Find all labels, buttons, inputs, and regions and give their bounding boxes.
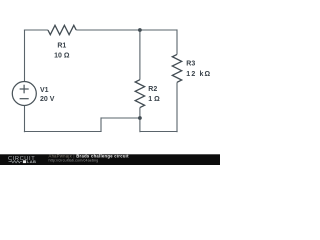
svg-text:http://circuitlab.com/c4ae6ng: http://circuitlab.com/c4ae6ng (49, 158, 99, 162)
svg-text:R3: R3 (186, 61, 195, 68)
watermark banner (0, 154, 220, 165)
svg-text:LAB: LAB (27, 159, 36, 164)
wire: top rail left lead to R1 (24, 29, 48, 31)
wire: R2 bottom pin to lower junction (139, 108, 141, 118)
svg-text:20 V: 20 V (40, 96, 55, 103)
wire: R3 bottom to bottom-right corner (176, 82, 178, 132)
voltage source V1 circle (12, 82, 36, 106)
wire: bottom rail right segment (R2 foot to R3 foot) (140, 131, 178, 133)
wire: mid horizontal at y=118 (101, 117, 140, 119)
svg-text:12 kΩ: 12 kΩ (186, 71, 211, 78)
V1 plus sign (20, 85, 29, 94)
V1 minus sign (20, 98, 29, 100)
svg-text:1 Ω: 1 Ω (148, 96, 160, 103)
junction node top (R2/top rail) (138, 28, 142, 32)
wire: left vertical from top rail to V1 top (24, 30, 26, 82)
resistor R2 zigzag (135, 80, 144, 108)
CircuitLab logo white chip (23, 160, 26, 163)
wire: top rail from R1 to right corner (76, 29, 177, 31)
svg-text:V1: V1 (40, 87, 49, 94)
wire: V1 bottom pin (24, 105, 26, 132)
CircuitLab logo resistor squiggle (9, 161, 23, 163)
resistor R3 zigzag (172, 54, 181, 82)
wire: R2 top pin from junction (139, 30, 141, 80)
wire: right vertical down to R3 top (176, 29, 178, 54)
resistor R1 zigzag (48, 25, 76, 34)
wire: jog vertical at x=101 (100, 117, 102, 131)
svg-text:R1: R1 (57, 43, 66, 50)
svg-text:R2: R2 (148, 86, 157, 93)
wire: lower junction down to bottom rail (139, 118, 141, 132)
svg-text:10 Ω: 10 Ω (54, 53, 70, 60)
wire: bottom rail left segment (24, 131, 102, 133)
junction node bottom (R2 foot) (138, 116, 142, 120)
